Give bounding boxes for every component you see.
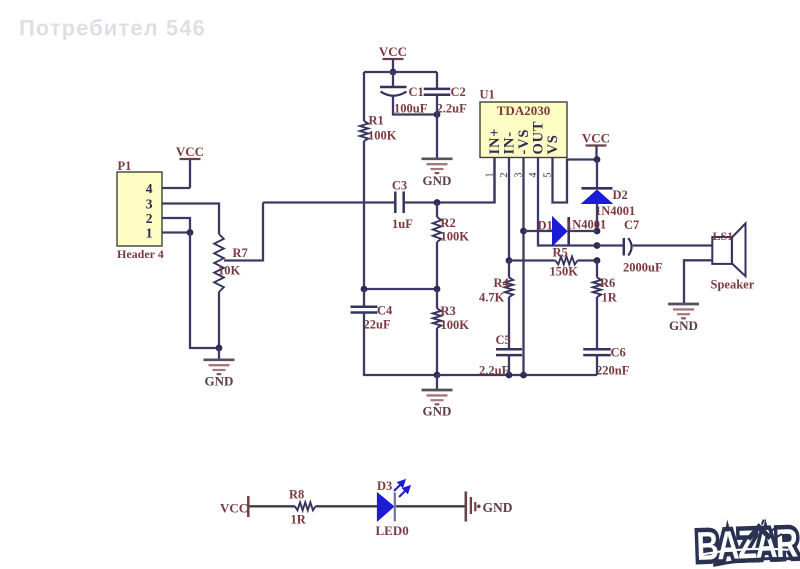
wire bias to C4 [363,289,365,306]
node junction D1 row [594,228,601,235]
svg-text:1R: 1R [602,291,618,305]
node junction ground rail [434,372,441,379]
wire R6 to C6 [596,297,598,349]
U1 pin number 1 [485,173,496,178]
R8 value 1R [291,513,307,527]
wire R4 top [508,261,510,278]
wire U1 pin 1 stub [493,158,495,203]
resistor R4 [505,278,513,298]
C4 value 22uF [364,318,391,332]
svg-text:220nF: 220nF [596,364,630,378]
svg-text:100K: 100K [441,318,470,332]
svg-text:R6: R6 [600,276,615,290]
wire C4 bottom to rail [364,313,437,376]
node junction R7 bottom ground [216,345,223,352]
node junction IN- R5 [506,257,513,264]
U1 pin number 2 [499,173,510,178]
svg-text:C2: C2 [451,85,466,99]
D2 refdes label [613,188,628,202]
BAZAR watermark logo [696,518,799,569]
svg-text:4.7K: 4.7K [479,291,505,305]
wire VCC to R8 [250,505,295,507]
speaker LS1 [712,223,745,276]
U1 pin label OUT [531,121,547,155]
wire VCC to C1 [392,72,394,86]
R6 refdes label [600,276,615,290]
C1 refdes label [409,85,424,99]
svg-text:GND: GND [483,500,513,515]
svg-text:3: 3 [146,197,153,212]
resistor R7 [214,234,224,292]
wire U1 pin 3 stub -VS to rail [522,158,524,376]
diode D1 1N4001 [553,217,569,246]
svg-text:1N4001: 1N4001 [595,204,635,218]
wire bias node row C4 to R2R3 [364,288,437,290]
wire C6 to rail [596,355,598,375]
wire top rail [364,71,437,73]
VCC symbol right [582,131,610,160]
R2 value 100K [441,230,470,244]
svg-text:C3: C3 [392,179,407,193]
wire U1 pin 4 stub OUT [538,158,597,246]
svg-text:D2: D2 [613,188,628,202]
node junction C5 on rail [506,372,513,379]
node junction R2 R3 [434,286,441,293]
wire R4 to C5 [508,297,510,349]
LS1 refdes label [713,229,734,243]
node junction R5 R6 [594,257,601,264]
svg-text:VCC: VCC [176,144,204,159]
svg-text:Speaker: Speaker [711,278,755,292]
capacitor C5 [496,349,522,355]
wire C2 to ground [436,96,438,158]
R4 value 4.7K [479,291,505,305]
ground under C2 [422,159,453,188]
svg-text:C1: C1 [409,85,424,99]
ground under R3 [422,375,453,419]
R1 refdes label [369,114,384,128]
VCC symbol near P1 [176,144,204,188]
svg-text:100K: 100K [441,230,470,244]
svg-text:GND: GND [205,374,234,389]
P1 pin number 3 [146,197,153,212]
wire D2 anode down [596,204,598,232]
U1 pin number 4 [528,173,539,178]
svg-text:GND: GND [423,173,452,188]
svg-text:BAZAR: BAZAR [696,521,799,569]
U1 pin label -VS [516,129,532,155]
connector P1 box [117,172,162,246]
node junction P1 pins 1-2 [187,229,194,236]
wire bottom ground rail [437,374,597,376]
R5 value 150K [550,265,579,279]
GND terminal LED strip [466,492,513,522]
svg-text:2.2uF: 2.2uF [479,364,510,378]
wire C5 to rail [508,355,510,375]
R6 value 1R [602,291,618,305]
resistor R1 [360,121,368,141]
U1 pin label IN- [502,131,518,154]
svg-text:22uF: 22uF [364,318,391,332]
U1 pin label IN+ [487,128,503,155]
svg-text:R7: R7 [233,246,248,260]
node junction VCC VS [594,156,601,163]
svg-text:1: 1 [146,226,153,241]
node junction input wire R2 [434,199,441,206]
wire R2 bottom to bias node [436,242,438,289]
U1 pin number 3 [514,173,525,178]
capacitor C2 [424,89,451,95]
C3 value 1uF [392,217,413,231]
wire R1 bottom to bias node [363,141,365,289]
U1 pin number 5 [543,173,554,178]
Header 4 value label [117,247,164,261]
wire R6 top [596,261,598,278]
wire P1 pin 2 down [162,218,190,233]
wire pins 1-2 to ground rail [190,233,219,349]
D1 refdes label [538,219,553,233]
resistor R3 [433,309,441,329]
svg-text:Потребител 546: Потребител 546 [19,16,206,41]
C6 value 220nF [596,364,630,378]
wire P1 pin 3 to R7 top [162,204,219,235]
LED D3 arrows [394,481,410,498]
svg-text:C7: C7 [624,218,639,232]
R5 refdes label [553,246,568,260]
wire C3 to U1 pin 1 [404,158,495,203]
P1 refdes label [118,159,132,173]
wire R8 to D3 [316,505,378,507]
svg-text:U1: U1 [480,88,495,102]
svg-text:VCC: VCC [220,501,248,516]
svg-text:10K: 10K [218,264,241,278]
U1 refdes label [480,88,495,102]
svg-text:LS1: LS1 [713,229,734,243]
svg-text:150K: 150K [550,265,579,279]
wire C1 bottom [393,96,437,115]
P1 pin number 2 [146,211,153,226]
wire VCC rail to R1 [363,72,365,121]
wire OUT to C7 [597,244,623,246]
wire R7 bottom to ground node [218,292,220,348]
C5 value 2.2uF [479,364,510,378]
C2 value 2.2uF [437,102,468,116]
svg-text:D3: D3 [377,479,392,493]
U1 value TDA2030 [497,103,550,118]
svg-text:VCC: VCC [379,44,407,59]
R3 value 100K [441,318,470,332]
svg-text:VS: VS [545,134,561,154]
wire U1 pin 5 stub VS to VCC [553,158,598,203]
wire VCC to D2 cathode [596,160,598,189]
watermark text Potrebitel 546 [19,16,206,41]
C3 refdes label [392,179,407,193]
D2 value 1N4001 [595,204,635,218]
wire D1 cathode [569,230,597,232]
C1 value 100uF [394,102,428,116]
D3 refdes label [377,479,392,493]
node junction C1 C2 ground stem [434,111,441,118]
node junction VCC top wire [390,69,397,76]
VCC symbol top [379,44,407,72]
svg-text:R1: R1 [369,114,384,128]
svg-text:Header 4: Header 4 [117,247,164,261]
C7 refdes label [624,218,639,232]
R8 refdes label [289,488,304,502]
wire speaker to ground [684,260,712,303]
svg-text:R2: R2 [441,216,456,230]
node junction C4 top [361,286,368,293]
wire R3 top [436,289,438,309]
wire R7 wiper tap [224,203,263,261]
wire P1 pin 1 [162,231,190,233]
svg-text:1R: 1R [291,513,307,527]
wire IN- to R5 [509,259,556,261]
svg-text:C4: C4 [377,304,393,318]
resistor R8 [295,502,316,510]
D1 value 1N4001 [566,218,606,232]
svg-text:P1: P1 [118,159,132,173]
resistor R5 [556,257,578,265]
R7 refdes label [233,246,248,260]
svg-text:GND: GND [669,318,698,333]
wire P1 pin 4 to VCC [162,187,190,189]
R7 value 10K [218,264,241,278]
svg-text:1uF: 1uF [392,217,413,231]
wire C7 to speaker [633,244,713,246]
op-amp U1 TDA2030 box [480,102,567,158]
wire input node to C3 [263,201,395,203]
svg-text:R4: R4 [494,276,510,290]
capacitor C3 [395,192,403,214]
P1 pin number 1 [146,226,153,241]
svg-text:R3: R3 [441,304,456,318]
svg-text:2: 2 [146,211,153,226]
capacitor C1 polarized [380,87,407,96]
wire U1 pin 2 stub IN- [508,158,510,261]
U1 pin label VS [545,134,561,154]
resistor R2 [433,217,441,242]
svg-text:100K: 100K [368,129,397,143]
wire R3 bottom to rail [436,328,438,375]
wire D1 anode [524,230,553,232]
LED D3 [377,492,394,521]
capacitor C6 [583,349,611,355]
resistor R6 [593,278,601,298]
wire input to R2 [436,203,438,218]
R4 refdes label [494,276,510,290]
wire top rail to C2 [436,72,438,88]
wire D3 to GND terminal [396,505,465,507]
ground under P1 [204,348,235,389]
svg-text:1N4001: 1N4001 [566,218,606,232]
R1 value 100K [368,129,397,143]
svg-text:2.2uF: 2.2uF [437,102,468,116]
svg-text:4: 4 [146,181,153,196]
C6 refdes label [611,346,626,360]
svg-text:D1: D1 [538,219,553,233]
C5 refdes label [496,333,511,347]
D3 value LED0 [376,523,409,538]
capacitor C4 [351,307,378,313]
svg-text:2000uF: 2000uF [623,261,663,275]
wire R5 to output node [578,259,598,261]
svg-text:TDA2030: TDA2030 [497,103,550,118]
diode D2 1N4001 [582,188,613,203]
P1 pin number 4 [146,181,153,196]
node junction OUT C7 [594,242,601,249]
svg-text:LED0: LED0 [376,523,409,538]
Speaker value label [711,278,755,292]
svg-text:R5: R5 [553,246,568,260]
node junction -VS D1 anode [520,228,527,235]
svg-text:C5: C5 [496,333,511,347]
svg-text:C6: C6 [611,346,626,360]
svg-text:GND: GND [423,404,452,419]
R3 refdes label [441,304,456,318]
R2 refdes label [441,216,456,230]
svg-text:VCC: VCC [582,131,610,146]
svg-text:R8: R8 [289,488,304,502]
capacitor C7 polarized [624,238,632,256]
node junction -VS on rail [520,372,527,379]
C7 value 2000uF [623,261,663,275]
VCC terminal LED strip [220,496,248,517]
C2 refdes label [451,85,466,99]
ground under speaker [668,304,699,333]
C4 refdes label [377,304,393,318]
